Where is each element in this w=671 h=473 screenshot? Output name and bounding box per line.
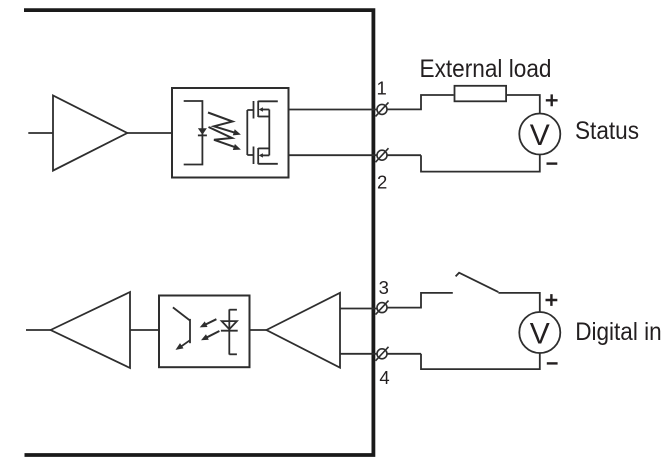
svg-text:4: 4 bbox=[379, 367, 389, 388]
svg-text:1: 1 bbox=[376, 77, 386, 98]
svg-text:External load: External load bbox=[420, 55, 552, 83]
svg-text:Digital in: Digital in bbox=[575, 318, 662, 346]
svg-text:3: 3 bbox=[379, 277, 389, 298]
svg-text:2: 2 bbox=[377, 172, 387, 193]
svg-text:V: V bbox=[530, 317, 550, 350]
svg-text:Status: Status bbox=[575, 117, 639, 145]
svg-text:V: V bbox=[530, 119, 550, 152]
